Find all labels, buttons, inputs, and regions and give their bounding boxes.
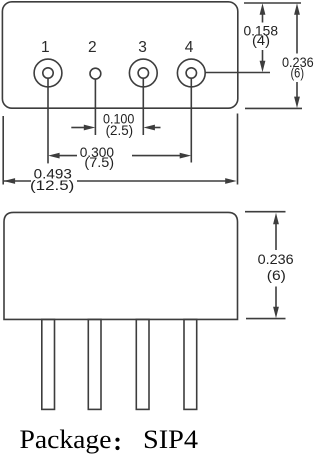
package outline side view xyxy=(4,212,238,319)
extension line top right xyxy=(244,2,301,4)
wire pin4 leader to right xyxy=(206,72,271,74)
svg-text:0.236: 0.236 xyxy=(258,251,294,267)
pin 4 label xyxy=(185,39,194,56)
caption Package: SIP4 xyxy=(20,425,199,454)
svg-text:(2.5): (2.5) xyxy=(106,122,134,138)
dimension 0.236 (6) vertical top view xyxy=(294,3,300,108)
pin 3 lead side view xyxy=(136,319,149,409)
dimension text 0.236 top xyxy=(282,54,314,80)
svg-text:2: 2 xyxy=(88,39,97,56)
dimension 0.300 (7.5) horizontal xyxy=(48,153,191,159)
wire pin1 extension xyxy=(47,78,49,163)
dimension text 0.236 side xyxy=(258,251,294,283)
extension line left 0.493 xyxy=(2,116,4,185)
dimension text 0.493 xyxy=(30,165,74,193)
wire pin4 extension xyxy=(190,78,192,162)
pin 4 pad xyxy=(177,59,205,87)
svg-text:(6): (6) xyxy=(267,267,286,283)
svg-text:(6): (6) xyxy=(291,65,305,81)
extension line bottom right xyxy=(245,107,302,109)
pin 2 label xyxy=(88,39,97,56)
svg-text:SIP4: SIP4 xyxy=(143,425,198,454)
svg-text:(7.5): (7.5) xyxy=(84,154,114,170)
svg-text:(4): (4) xyxy=(252,32,270,48)
dimension 0.158 (4) vertical xyxy=(260,3,266,72)
package outline top view xyxy=(2,2,237,108)
extension line top right side view xyxy=(245,211,286,213)
dimension 0.100 (2.5) horizontal xyxy=(71,125,160,131)
extension line bottom right side view xyxy=(246,318,286,320)
pin 4 lead side view xyxy=(184,319,197,409)
wire pin2 extension xyxy=(94,79,96,135)
svg-text:1: 1 xyxy=(41,39,50,56)
dimension text 0.300 xyxy=(80,144,114,170)
pin 3 label xyxy=(138,39,147,56)
svg-text:(12.5): (12.5) xyxy=(30,177,74,193)
pin 2 pad xyxy=(90,68,101,79)
dimension 0.493 (12.5) horizontal xyxy=(4,178,237,184)
svg-text:4: 4 xyxy=(185,39,194,56)
pin 2 lead side view xyxy=(88,319,101,409)
pin 1 pad xyxy=(34,59,62,87)
dimension text 0.158 xyxy=(244,23,279,49)
svg-text:Package: Package xyxy=(20,425,112,454)
dimension text 0.100 xyxy=(103,111,135,138)
pin 1 lead side view xyxy=(42,319,55,409)
dimension 0.236 (6) vertical side view xyxy=(273,213,279,319)
pin 3 pad xyxy=(129,59,157,87)
svg-text:3: 3 xyxy=(138,39,147,56)
wire pin3 extension xyxy=(142,78,144,135)
extension line right 0.493 xyxy=(237,114,239,185)
pin 1 label xyxy=(41,39,50,56)
